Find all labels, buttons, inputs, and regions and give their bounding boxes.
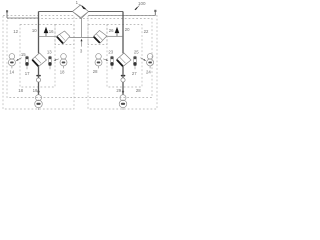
svg-text:28: 28	[136, 88, 141, 93]
wire right terminal feed	[89, 15, 156, 17]
svg-text:3: 3	[80, 48, 83, 53]
module box right (outer dashed, right half)	[88, 16, 157, 110]
svg-text:18: 18	[18, 88, 23, 93]
leader arrow mid left	[55, 59, 58, 60]
svg-text:16: 16	[49, 29, 54, 34]
wire top right horizontal	[89, 11, 124, 13]
svg-text:28: 28	[93, 69, 98, 74]
svg-text:24: 24	[146, 70, 151, 75]
terminal right	[154, 10, 156, 16]
svg-text:25: 25	[134, 49, 139, 54]
gas tube right outer (double circle)	[147, 54, 154, 66]
leader arrow to left outer tube	[18, 58, 22, 60]
wire mid horizontal left	[39, 35, 57, 37]
gas tube right inner (double circle)	[95, 54, 102, 66]
sub box left of center	[55, 25, 74, 45]
svg-text:19: 19	[33, 88, 38, 93]
trunk bead left (small circle with dots)	[36, 78, 40, 82]
wire top left horizontal	[7, 12, 155, 95]
svg-text:13: 13	[47, 50, 52, 55]
junction dot left	[37, 91, 39, 93]
capsule element left A	[25, 56, 28, 69]
bottom discharge tube right (double circle)	[119, 95, 127, 108]
svg-text:23: 23	[108, 50, 113, 55]
capsule element right B	[133, 56, 136, 69]
svg-text:18: 18	[60, 70, 65, 75]
varistor V1 left (tilted box)	[57, 31, 70, 44]
capsule element right A	[110, 56, 113, 69]
leader arrow mid right	[103, 59, 106, 60]
bottom discharge tube left (double circle)	[35, 95, 43, 108]
svg-text:27: 27	[132, 71, 137, 76]
inner dashed box 12 (left)	[20, 25, 55, 88]
inner dashed box 22 (right)	[107, 25, 142, 88]
wire trunk right	[122, 12, 124, 54]
svg-text:1: 1	[76, 0, 79, 5]
svg-text:29: 29	[116, 88, 121, 93]
varistor element 1 (top diamond)	[73, 5, 89, 19]
capsule element left B	[48, 56, 51, 69]
svg-text:22: 22	[144, 29, 149, 34]
varistor V2 left (tilted box on trunk)	[32, 53, 47, 67]
gas tube left inner (double circle)	[60, 54, 67, 66]
svg-text:26: 26	[109, 28, 114, 33]
middle dashed enclosure	[7, 19, 152, 98]
svg-text:20: 20	[125, 27, 130, 32]
sub box right of center	[88, 25, 107, 45]
svg-text:14: 14	[9, 70, 14, 75]
terminal left	[6, 11, 8, 19]
wire trunk left	[38, 12, 40, 54]
current arrow right (up)	[116, 30, 118, 36]
svg-text:10: 10	[32, 28, 37, 33]
svg-text:100: 100	[138, 1, 146, 6]
wire center drop from diamond	[81, 19, 83, 38]
svg-text:15: 15	[21, 52, 26, 57]
wire left terminal feed	[7, 17, 39, 19]
trunk bead right (small circle with dots)	[121, 78, 125, 82]
wire mid horizontal right	[108, 35, 124, 37]
gas tube left outer (double circle)	[8, 54, 15, 66]
svg-text:17: 17	[25, 71, 30, 76]
wire mid horizontal center	[70, 36, 95, 38]
current arrow left (up)	[45, 30, 47, 36]
varistor V2 right (tilted box on trunk)	[117, 53, 132, 67]
leader arrow to right outer tube	[141, 58, 145, 60]
svg-text:12: 12	[13, 29, 18, 34]
module box left (outer dashed, left half)	[3, 16, 157, 110]
junction dot right	[122, 91, 124, 93]
varistor V1 right (tilted box)	[93, 31, 106, 44]
